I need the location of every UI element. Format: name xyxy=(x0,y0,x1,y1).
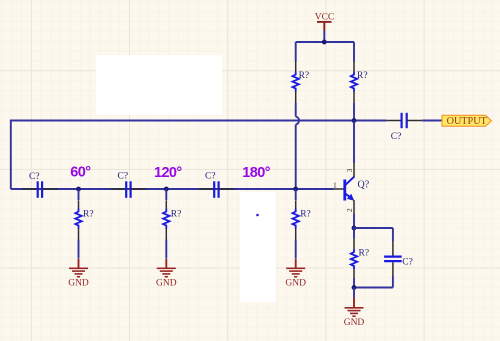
wire cap branch lower xyxy=(392,277,394,288)
capacitor C4 (emitter bypass) xyxy=(384,241,402,277)
junction emitter node xyxy=(352,226,357,231)
ground GND (60deg) xyxy=(68,259,89,289)
wire right bias column upper xyxy=(353,42,355,62)
ground GND (emitter) xyxy=(344,298,365,329)
svg-text:1: 1 xyxy=(333,181,337,190)
resistor R6 (emitter) xyxy=(351,228,357,288)
svg-text:GND: GND xyxy=(285,279,306,289)
junction at collector/output node xyxy=(352,118,357,123)
svg-text:R?: R? xyxy=(299,71,310,81)
junction on VCC rail xyxy=(322,40,327,45)
svg-text:Q?: Q? xyxy=(358,180,370,191)
ground GND (120deg) xyxy=(156,259,177,289)
wire output horizontal xyxy=(11,120,387,122)
svg-text:3: 3 xyxy=(345,168,354,172)
wire emitter bottom to ground xyxy=(353,288,355,298)
capacitor C3 xyxy=(199,181,235,198)
wire emitter node to cap branch xyxy=(354,227,393,229)
svg-text:C?: C? xyxy=(29,172,40,182)
resistor R4 (120deg shunt) xyxy=(163,189,169,259)
wire ladder horizontal xyxy=(11,188,334,190)
junction node 60deg xyxy=(76,187,81,192)
resistor R3 (60deg shunt) xyxy=(75,189,81,259)
wire left bias column upper xyxy=(295,42,297,62)
wire VCC rail xyxy=(296,41,354,43)
svg-text:C?: C? xyxy=(205,171,216,181)
capacitor C5 (output coupling) xyxy=(386,113,422,128)
wire VCC stub xyxy=(323,31,325,42)
wire left feedback vertical xyxy=(10,120,12,190)
svg-text:R?: R? xyxy=(359,249,370,259)
stray node dot xyxy=(256,214,259,217)
capacitor C1 xyxy=(22,181,58,198)
junction emitter resistor bottom xyxy=(352,285,357,290)
svg-text:GND: GND xyxy=(344,318,365,328)
resistor R1 (left bias) xyxy=(293,61,299,103)
wire to output port xyxy=(422,120,442,122)
svg-text:R?: R? xyxy=(300,210,311,220)
wire collector to output node xyxy=(353,121,355,164)
svg-text:VCC: VCC xyxy=(315,13,335,23)
junction node 180deg (base node) xyxy=(293,187,298,192)
ground GND (base shunt) xyxy=(285,259,306,289)
wire left bias column lower xyxy=(295,125,297,190)
svg-text:R?: R? xyxy=(171,210,182,220)
wire emitter down xyxy=(353,214,355,228)
svg-text:GND: GND xyxy=(156,279,177,289)
wire collector column to output node xyxy=(353,103,355,121)
power symbol VCC xyxy=(315,13,335,31)
resistor R2 (collector) xyxy=(351,61,357,103)
wire below left bias resistor xyxy=(295,103,297,117)
svg-text:120°: 120° xyxy=(154,165,182,181)
svg-text:C?: C? xyxy=(391,132,402,142)
port OUTPUT xyxy=(442,115,492,127)
wire hop over output wire xyxy=(296,117,299,125)
svg-text:60°: 60° xyxy=(70,165,91,181)
capacitor C2 xyxy=(111,181,147,198)
wire cap branch upper xyxy=(392,228,394,241)
svg-text:OUTPUT: OUTPUT xyxy=(447,116,488,127)
svg-text:180°: 180° xyxy=(242,165,270,181)
transistor Q1 xyxy=(334,163,355,215)
svg-text:2: 2 xyxy=(345,208,354,212)
resistor R5 (base shunt) xyxy=(293,189,299,259)
svg-text:C?: C? xyxy=(118,171,129,181)
junction node 120deg xyxy=(164,187,169,192)
svg-text:C?: C? xyxy=(402,258,413,268)
svg-text:R?: R? xyxy=(357,71,368,81)
svg-text:GND: GND xyxy=(68,279,89,289)
wire cap branch bottom to emitter resistor xyxy=(354,287,393,289)
svg-text:R?: R? xyxy=(83,210,94,220)
